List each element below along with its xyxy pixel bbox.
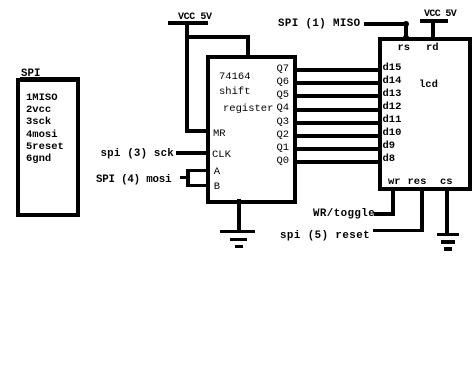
net label spi (5) reset — [280, 231, 370, 242]
net label SPI (1) MISO — [278, 19, 361, 30]
net label SPI (4) mosi — [96, 175, 171, 186]
pin 1 MISO — [26, 93, 58, 104]
power VCC 5V label (right) — [424, 9, 456, 20]
pin d8 — [383, 154, 396, 165]
value label 74164 — [219, 72, 251, 83]
wire fork to B pin — [186, 184, 209, 188]
wire Q3 to d11 — [293, 121, 381, 125]
wire Q4 to d12 — [293, 108, 381, 112]
pin d10 — [383, 128, 402, 139]
pin Q3 — [277, 117, 290, 128]
IC U1 74164 shift register box — [206, 55, 297, 204]
connector J1 SPI header box — [16, 78, 80, 217]
wire MISO horizontal — [364, 22, 408, 26]
label SPI (underlined) — [21, 69, 40, 80]
pin d14 — [383, 76, 402, 87]
pin 3 sck — [26, 117, 51, 128]
pin d13 — [383, 89, 402, 100]
ground symbol below cs — [437, 233, 459, 237]
wire Q0 to d8 — [293, 160, 381, 164]
junction dot at rs pin — [403, 35, 409, 41]
net label WR/toggle — [313, 209, 375, 220]
pin wr — [388, 177, 401, 188]
pin Q4 — [277, 103, 290, 114]
net label spi (3) sck — [101, 149, 174, 160]
pin cs — [440, 177, 453, 188]
wire reset horizontal — [373, 229, 424, 233]
pin res — [408, 177, 427, 188]
wire sck to CLK pin — [176, 151, 209, 155]
wire MISO down into rs — [404, 22, 408, 37]
pin Q2 — [277, 130, 290, 141]
wire branch vertical into 74164 top — [246, 35, 250, 57]
pin Q6 — [277, 77, 290, 88]
pin 6 gnd — [26, 154, 51, 165]
wire 74164 gnd pin down — [237, 199, 241, 232]
junction dot at MISO corner — [403, 21, 409, 27]
pin Q1 — [277, 143, 290, 154]
pin Q0 — [277, 156, 290, 167]
wire cs pin down — [445, 187, 449, 236]
value label register — [223, 104, 273, 115]
pin rs — [398, 43, 411, 54]
wire Q7 to d15 — [293, 68, 381, 72]
wire Q5 to d13 — [293, 94, 381, 98]
power VCC 5V label (left) — [178, 12, 212, 23]
wire Q1 to d9 — [293, 147, 381, 151]
wire Q2 to d10 — [293, 134, 381, 138]
underline of SPI label — [20, 77, 80, 78]
wire VCC stem down to MR net — [185, 23, 189, 133]
power VCC bar (left) — [168, 21, 209, 25]
wire branch horizontal to 74164 top pin — [185, 35, 250, 39]
wire WR/toggle horizontal — [374, 212, 395, 216]
pin d12 — [383, 102, 402, 113]
wire VCC to rd pin — [431, 21, 435, 37]
value label lcd — [419, 80, 438, 91]
pin 4 mosi — [26, 130, 58, 141]
IC U2 lcd box — [378, 37, 472, 192]
wire wr pin down — [391, 187, 395, 216]
value label shift — [219, 87, 251, 98]
power VCC bar (right) — [420, 19, 448, 23]
wire fork to A pin — [186, 169, 209, 173]
wire mosi stub — [180, 176, 187, 180]
wire Q6 to d14 — [293, 81, 381, 85]
pin rd — [426, 43, 439, 54]
ground symbol below 74164 — [220, 230, 255, 234]
pin Q5 — [277, 90, 290, 101]
pin CLK — [212, 150, 231, 161]
pin 2 vcc — [26, 105, 51, 116]
pin d11 — [383, 115, 402, 126]
pin B — [214, 182, 220, 193]
pin 5 reset — [26, 142, 64, 153]
pin d15 — [383, 63, 402, 74]
pin MR — [213, 129, 226, 140]
pin d9 — [383, 141, 396, 152]
wire into MR pin — [185, 129, 208, 133]
pin A — [214, 167, 220, 178]
pin Q7 — [277, 64, 290, 75]
wire res pin down — [420, 187, 424, 232]
wire mosi fork vertical — [186, 169, 190, 188]
